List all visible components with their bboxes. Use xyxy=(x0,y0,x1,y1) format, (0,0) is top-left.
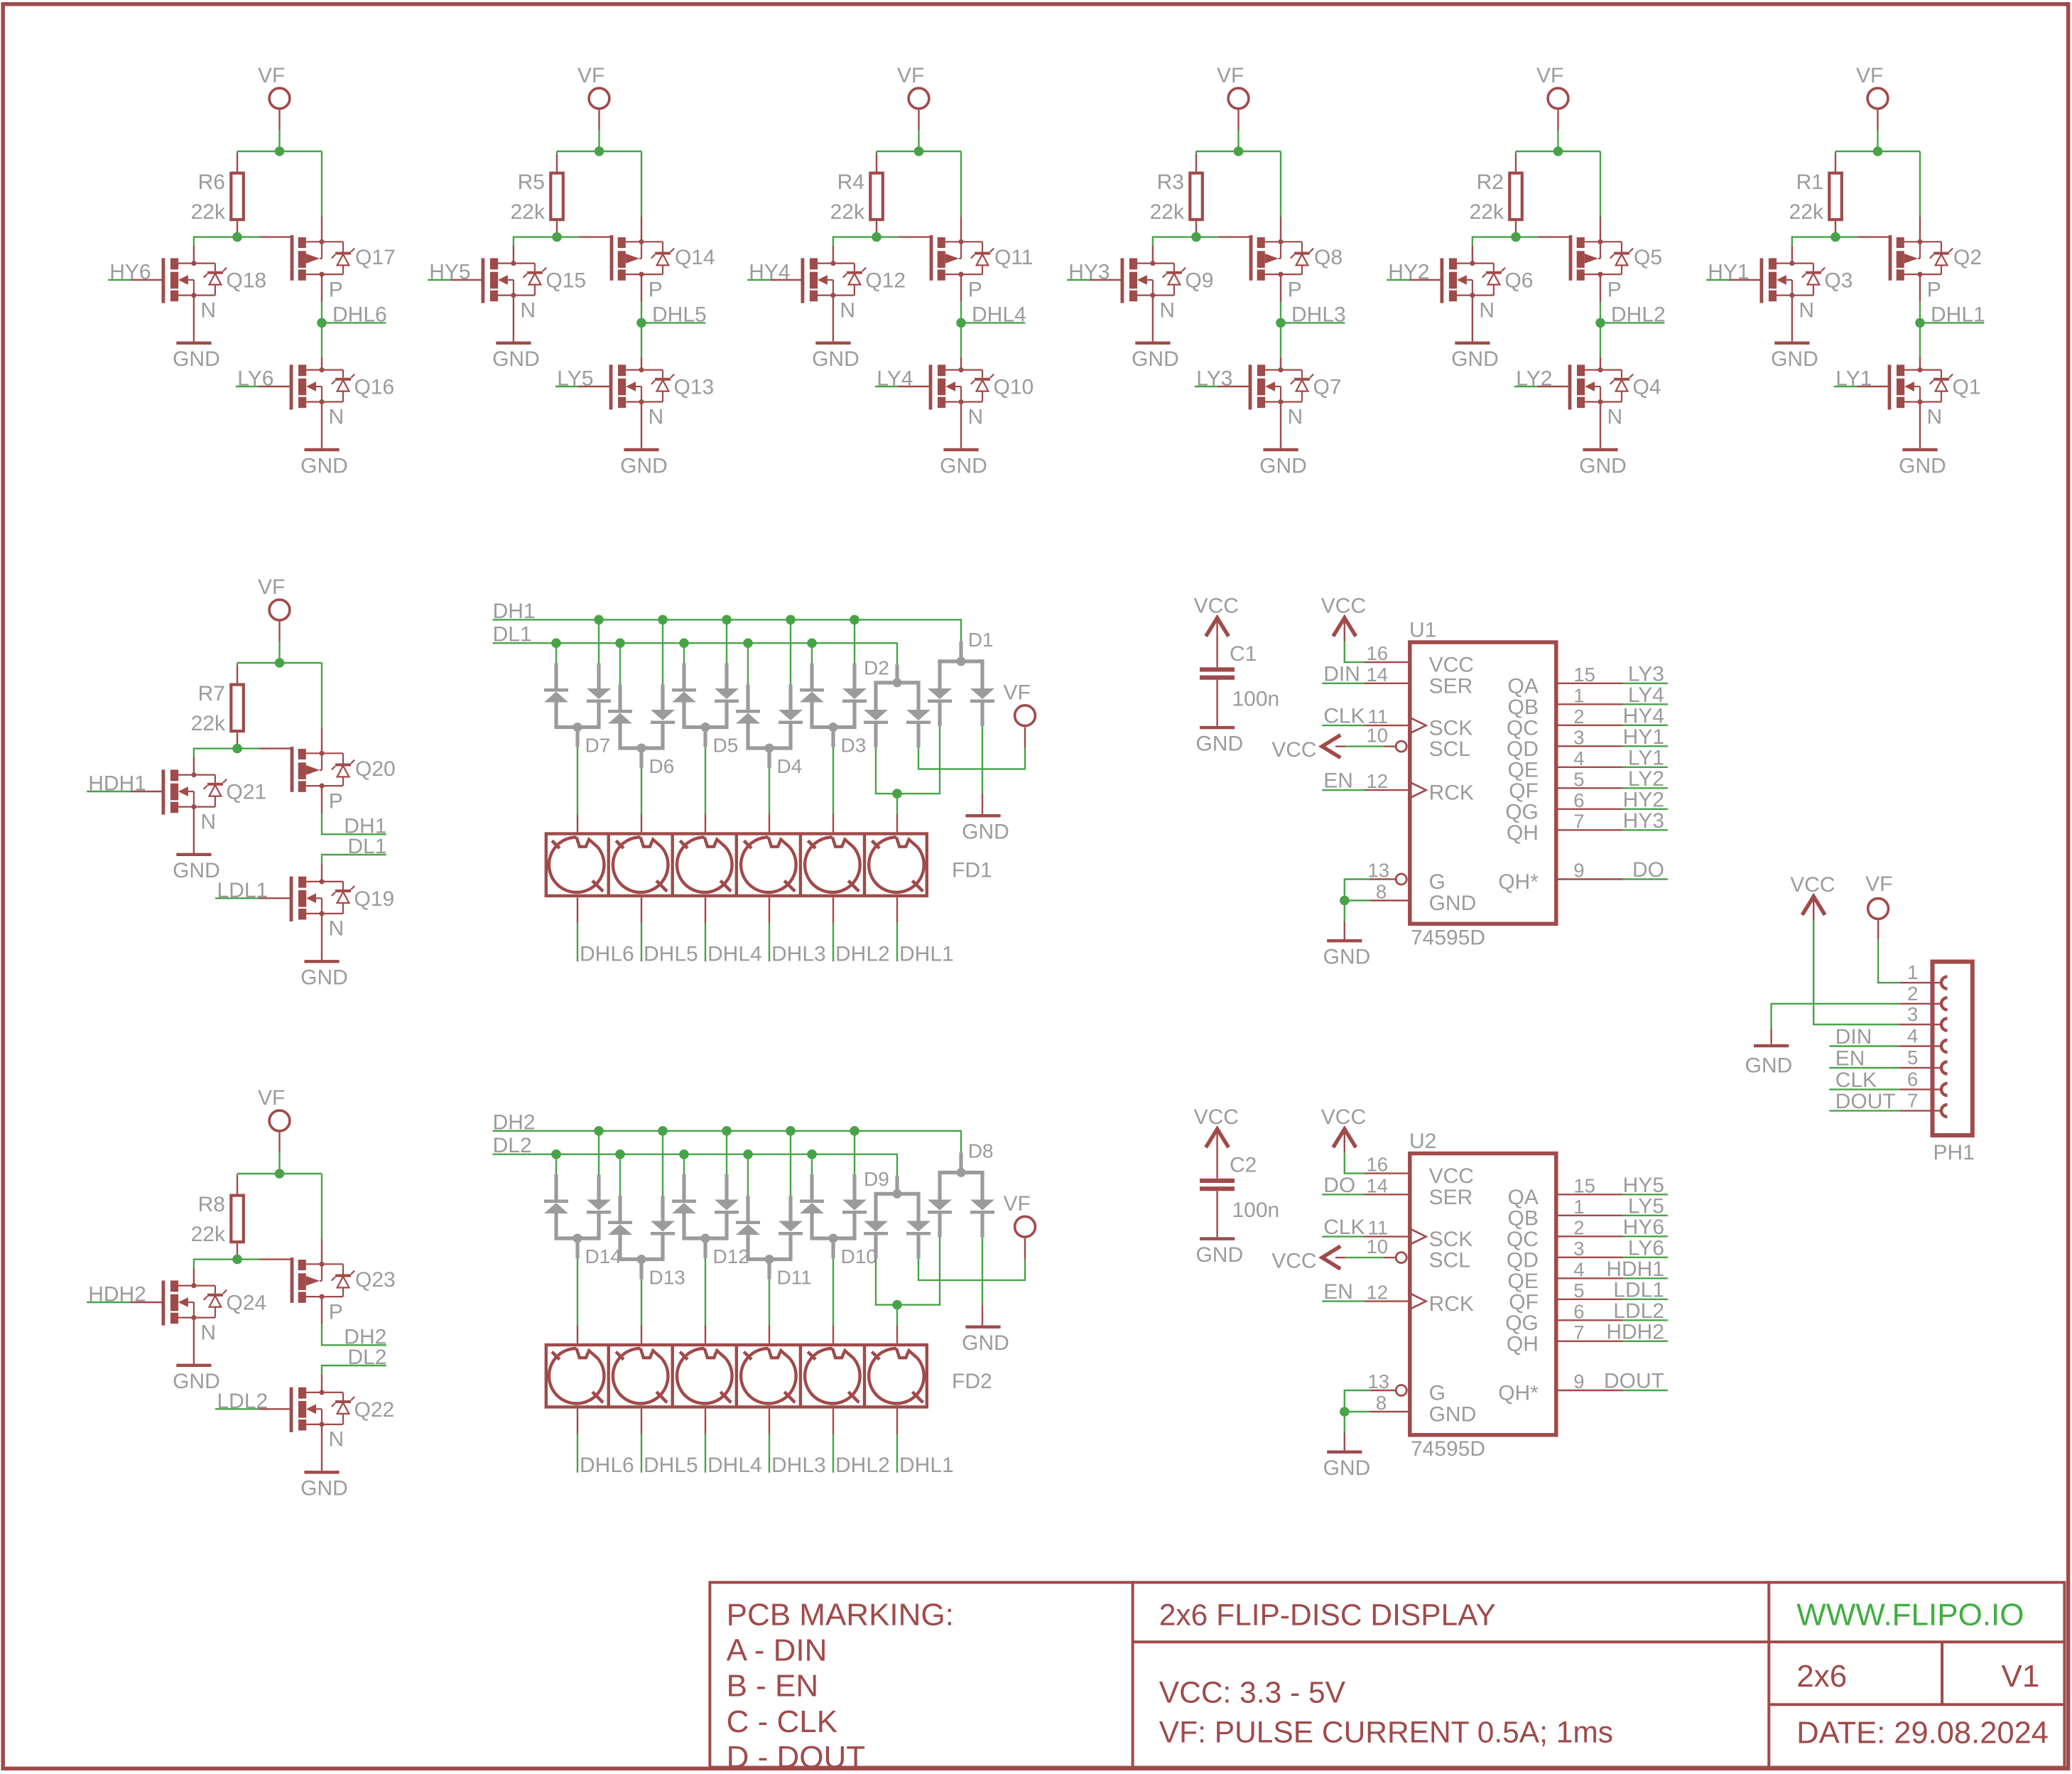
svg-text:QF: QF xyxy=(1509,1290,1539,1314)
wire PMOS drain to node DHL1 xyxy=(1919,274,1921,302)
transistor Q6 (N-MOSFET) xyxy=(1441,258,1506,303)
wire pair 5 to disc xyxy=(832,747,834,815)
wire to resistor xyxy=(237,663,238,666)
ground xyxy=(304,448,339,451)
svg-text:13: 13 xyxy=(1367,860,1389,882)
wire pin 7 lead xyxy=(1899,1110,1931,1111)
svg-text:10: 10 xyxy=(1367,1235,1389,1258)
svg-text:22k: 22k xyxy=(1470,200,1504,224)
wire gate node to PMOS gate xyxy=(1196,236,1218,237)
pin 7 contact xyxy=(1941,1105,1948,1117)
wire D1 right cathode to ground xyxy=(982,726,983,794)
transistor Q11 (P-MOSFET) xyxy=(930,235,994,281)
supply flag VF xyxy=(1867,88,1888,109)
svg-text:HY2: HY2 xyxy=(1623,788,1664,811)
wire pair 3 to disc xyxy=(705,1258,706,1326)
node VF junction xyxy=(1234,146,1244,156)
IC U2 74595D xyxy=(1410,1154,1556,1435)
capacitor C1 100n xyxy=(1200,667,1235,726)
wire resistor to gate node xyxy=(1835,221,1836,237)
svg-text:D14: D14 xyxy=(585,1245,622,1267)
wire VF rail xyxy=(1516,151,1600,152)
wire gate node to PMOS gate xyxy=(237,1258,259,1260)
svg-text:N: N xyxy=(200,810,216,833)
svg-text:2: 2 xyxy=(1573,705,1584,728)
node DHL1 xyxy=(1915,318,1925,328)
svg-text:N: N xyxy=(329,405,345,428)
wire to resistor xyxy=(1835,151,1836,154)
svg-text:QG: QG xyxy=(1505,1311,1539,1335)
svg-text:EN: EN xyxy=(1835,1047,1865,1071)
wire DHL5 label stub xyxy=(641,322,705,323)
wire disc pin DHL1 xyxy=(896,897,898,923)
wire C1 to ground xyxy=(1216,680,1217,726)
wire VF stub xyxy=(1237,110,1239,130)
svg-text:4: 4 xyxy=(1573,747,1584,769)
node DL2 junction 5 xyxy=(807,1150,817,1159)
wire pin 8 to ground xyxy=(1345,1411,1370,1412)
svg-text:HDH2: HDH2 xyxy=(1606,1320,1664,1343)
svg-text:D4: D4 xyxy=(777,755,803,777)
ground xyxy=(304,1471,339,1473)
wire HY5 xyxy=(428,279,450,281)
svg-text:7: 7 xyxy=(1573,1321,1584,1343)
svg-text:DHL4: DHL4 xyxy=(707,1454,762,1477)
svg-text:Q14: Q14 xyxy=(675,246,715,269)
svg-text:N: N xyxy=(329,1428,345,1451)
svg-text:6: 6 xyxy=(1573,1300,1584,1322)
node DHL3 xyxy=(1276,318,1286,328)
wire VF pulse line xyxy=(1024,727,1026,748)
svg-text:VCC: VCC xyxy=(1194,595,1239,618)
svg-text:DO: DO xyxy=(1632,858,1664,882)
diode D13 (dual) xyxy=(608,1196,675,1280)
svg-text:VF: VF xyxy=(1536,64,1563,87)
wire junction to ground symbol xyxy=(1344,1412,1345,1433)
svg-text:VF: VF xyxy=(577,64,604,87)
svg-text:D8: D8 xyxy=(968,1140,994,1162)
svg-text:D3: D3 xyxy=(841,735,867,757)
wire VF pulse line xyxy=(1024,1238,1026,1260)
wire disc pin DHL5 xyxy=(641,1409,642,1434)
svg-text:VCC: VCC xyxy=(1271,1250,1316,1273)
svg-text:GND: GND xyxy=(1579,454,1627,477)
transistor Q10 (N-MOSFET) xyxy=(929,364,994,409)
svg-text:CLK: CLK xyxy=(1835,1069,1877,1092)
svg-text:5: 5 xyxy=(1573,1280,1584,1302)
svg-text:10: 10 xyxy=(1367,725,1389,747)
wire Q3 source to ground xyxy=(1791,296,1793,342)
svg-text:N: N xyxy=(1159,298,1175,322)
wire gate node left xyxy=(194,749,237,757)
svg-text:DO: DO xyxy=(1323,1174,1355,1197)
wire DL1 to diode xyxy=(747,643,749,684)
wire resistor to gate node xyxy=(876,221,877,237)
wire Q22 source to ground xyxy=(321,1424,322,1471)
wire VF rail xyxy=(877,151,961,152)
diode D10 (dual) xyxy=(800,1174,867,1258)
transistor Q15 (N-MOSFET) xyxy=(482,258,547,303)
resistor R6 22k xyxy=(231,173,244,220)
transistor Q1 (N-MOSFET) xyxy=(1888,364,1953,409)
wire VF to PMOS source xyxy=(960,151,962,217)
svg-text:LY1: LY1 xyxy=(1628,746,1664,769)
svg-text:D - DOUT: D - DOUT xyxy=(727,1740,866,1774)
svg-text:C2: C2 xyxy=(1230,1154,1257,1177)
wire VF to pin 1 xyxy=(1877,920,1879,940)
diode D2 (dual, common anode) xyxy=(864,664,931,747)
wire DL1 to diode xyxy=(555,643,557,663)
transistor Q5 (P-MOSFET) xyxy=(1569,235,1634,281)
svg-text:LY6: LY6 xyxy=(1628,1236,1664,1260)
wire VF stub xyxy=(598,110,600,130)
svg-text:LY2: LY2 xyxy=(1628,767,1664,791)
wire disc pin DHL3 xyxy=(769,1409,770,1434)
svg-text:DIN: DIN xyxy=(1835,1025,1872,1049)
node DH1 junction 2 xyxy=(658,615,668,625)
wire PMOS drain to node DHL6 xyxy=(321,274,322,302)
wire DHL3 label stub xyxy=(1281,322,1345,323)
svg-text:7: 7 xyxy=(1907,1089,1918,1111)
svg-text:QC: QC xyxy=(1507,716,1539,740)
svg-text:Q9: Q9 xyxy=(1185,269,1213,293)
svg-text:15: 15 xyxy=(1573,664,1595,686)
svg-text:DHL1: DHL1 xyxy=(899,1454,954,1477)
node VF junction xyxy=(1873,146,1883,156)
svg-text:DHL2: DHL2 xyxy=(835,943,890,966)
transistor Q8 (P-MOSFET) xyxy=(1249,235,1314,281)
svg-text:CLK: CLK xyxy=(1323,1216,1365,1239)
svg-text:3: 3 xyxy=(1573,726,1584,748)
svg-text:VCC: VCC xyxy=(1429,1164,1474,1188)
wire VF stub xyxy=(278,622,280,642)
wire output QE to HDH1 xyxy=(1558,1277,1623,1279)
svg-text:B - EN: B - EN xyxy=(727,1669,819,1704)
wire CLK to pin 11 xyxy=(1322,725,1364,726)
node DL1 junction 3 xyxy=(679,638,689,648)
wire DL1 to diode xyxy=(811,643,813,663)
pin 4 contact xyxy=(1941,1040,1948,1052)
wire DH1 rail xyxy=(493,620,961,641)
title block table xyxy=(710,1581,2066,1768)
svg-text:16: 16 xyxy=(1367,642,1389,664)
transistor Q4 (N-MOSFET) xyxy=(1568,364,1634,409)
wire gate node to PMOS gate xyxy=(237,747,259,749)
ground xyxy=(965,814,1000,817)
wire VCC to C2 xyxy=(1216,1131,1217,1179)
wire LY2 xyxy=(1514,386,1537,387)
node VF junction xyxy=(275,658,285,668)
wire PMOS drain to node DHL3 xyxy=(1280,274,1281,302)
wire DL2 to diode xyxy=(811,1154,813,1174)
wire gate node left xyxy=(833,237,877,246)
wire output QE to LY1 xyxy=(1558,767,1623,768)
svg-text:SCL: SCL xyxy=(1429,737,1470,761)
svg-text:DHL2: DHL2 xyxy=(835,1454,890,1477)
resistor R4 22k xyxy=(870,173,883,220)
svg-text:HY5: HY5 xyxy=(1623,1174,1664,1197)
wire to resistor xyxy=(237,1174,238,1177)
wire VF stub xyxy=(278,110,280,130)
pin 6 contact xyxy=(1941,1083,1948,1096)
svg-text:FD1: FD1 xyxy=(952,859,992,882)
svg-text:LY4: LY4 xyxy=(1628,683,1664,707)
wire output QD to HY1 xyxy=(1558,745,1623,747)
node VF junction xyxy=(1553,146,1563,156)
wire DL2 rail xyxy=(493,1154,897,1176)
svg-text:PCB MARKING:: PCB MARKING: xyxy=(727,1598,954,1633)
svg-text:N: N xyxy=(1479,298,1495,322)
wire output QB to LY4 xyxy=(1558,703,1623,705)
wire node to Q10 drain xyxy=(960,323,962,357)
svg-text:QA: QA xyxy=(1508,1186,1539,1209)
diode D6 (dual) xyxy=(608,685,675,769)
transistor Q14 (P-MOSFET) xyxy=(610,235,675,281)
wire D1 cathode to disc node xyxy=(897,726,940,794)
wire output QH* to DO xyxy=(1558,878,1623,880)
wire output QD to LY6 xyxy=(1558,1257,1623,1258)
svg-text:Q12: Q12 xyxy=(865,269,906,293)
svg-text:P: P xyxy=(329,1301,343,1324)
ground xyxy=(1200,726,1235,729)
svg-text:2x6 FLIP-DISC DISPLAY: 2x6 FLIP-DISC DISPLAY xyxy=(1159,1599,1496,1633)
wire disc pin DHL2 xyxy=(832,1409,834,1434)
wire Q24 source to ground xyxy=(193,1318,195,1364)
wire DL2 to diode xyxy=(683,1154,685,1174)
wire VCC to pin 10 xyxy=(1335,1257,1346,1258)
svg-text:1: 1 xyxy=(1573,1196,1584,1218)
svg-text:N: N xyxy=(329,917,345,941)
wire pin 6 lead xyxy=(1899,1088,1931,1090)
diode D8 (dual, common anode) xyxy=(928,1152,994,1238)
pin 5 contact xyxy=(1941,1062,1948,1074)
svg-text:VCC: VCC xyxy=(1790,873,1835,897)
wire HY6 xyxy=(108,279,131,281)
svg-text:100n: 100n xyxy=(1232,688,1280,711)
wire D9 cathode to disc node xyxy=(876,1259,897,1305)
svg-text:Q17: Q17 xyxy=(355,246,396,269)
svg-text:VF: VF xyxy=(258,1086,285,1110)
wire output QB to LY5 xyxy=(1558,1215,1623,1216)
svg-text:D12: D12 xyxy=(713,1245,749,1267)
wire pair 1 to disc xyxy=(577,1258,578,1326)
svg-text:14: 14 xyxy=(1367,664,1389,686)
svg-text:VCC: VCC xyxy=(1321,595,1366,618)
svg-text:GND: GND xyxy=(1195,1243,1243,1267)
transistor Q21 (N-MOSFET) xyxy=(162,769,227,814)
node gate junction xyxy=(1191,232,1201,242)
svg-text:Q8: Q8 xyxy=(1314,246,1343,269)
svg-text:3: 3 xyxy=(1907,1003,1918,1025)
wire pair 2 to disc xyxy=(641,1280,642,1326)
svg-text:Q5: Q5 xyxy=(1634,246,1662,269)
wire VF rail xyxy=(237,151,322,152)
node DH1 junction 5 xyxy=(850,615,859,625)
svg-text:GND: GND xyxy=(812,347,859,371)
svg-text:N: N xyxy=(840,298,855,322)
transistor Q3 (N-MOSFET) xyxy=(1760,258,1826,303)
svg-text:R4: R4 xyxy=(837,171,864,194)
wire gate node left xyxy=(194,237,237,246)
wire gate node left xyxy=(1472,237,1516,246)
wire pin 13 to ground xyxy=(1369,878,1395,880)
node DL2 junction 1 xyxy=(551,1150,561,1159)
diode D4 (dual) xyxy=(736,685,803,769)
wire LY1 xyxy=(1834,386,1857,387)
svg-text:N: N xyxy=(520,298,536,322)
svg-text:N: N xyxy=(200,298,216,322)
svg-text:U2: U2 xyxy=(1409,1130,1436,1153)
svg-text:LY5: LY5 xyxy=(1628,1194,1664,1218)
resistor R8 22k xyxy=(231,1196,244,1243)
svg-text:Q7: Q7 xyxy=(1313,376,1342,399)
wire gate node left xyxy=(1792,237,1835,246)
wire HDH2 xyxy=(87,1302,131,1303)
svg-text:R1: R1 xyxy=(1796,171,1823,194)
ground xyxy=(176,1364,211,1367)
svg-text:Q13: Q13 xyxy=(674,376,715,399)
wire gate node left xyxy=(1153,237,1196,246)
wire DH1 to diode xyxy=(790,620,791,684)
svg-text:LY3: LY3 xyxy=(1628,662,1664,686)
svg-text:D9: D9 xyxy=(864,1168,889,1190)
wire output QH* to DOUT xyxy=(1558,1390,1623,1391)
svg-text:GND: GND xyxy=(300,966,348,990)
svg-text:22k: 22k xyxy=(511,200,546,224)
ground xyxy=(1583,448,1617,451)
svg-text:D11: D11 xyxy=(777,1267,812,1289)
svg-text:R2: R2 xyxy=(1477,171,1504,194)
svg-text:DOUT: DOUT xyxy=(1835,1090,1896,1113)
wire DH2 to diode xyxy=(854,1131,855,1174)
wire DIN xyxy=(1829,1045,1899,1046)
wire disc pin DHL4 xyxy=(705,1409,706,1434)
wire HY4 xyxy=(747,279,770,281)
svg-text:GND: GND xyxy=(940,454,987,477)
svg-text:GND: GND xyxy=(1195,732,1243,755)
svg-text:8: 8 xyxy=(1376,1392,1387,1414)
svg-text:QC: QC xyxy=(1507,1228,1539,1251)
wire DH1 to diode xyxy=(598,620,600,663)
wire pin 3 lead xyxy=(1899,1024,1931,1025)
wire pair 4 to disc xyxy=(769,1280,770,1326)
svg-text:GND: GND xyxy=(1429,892,1477,915)
wire resistor to gate node xyxy=(1515,221,1517,237)
svg-text:DHL1: DHL1 xyxy=(899,943,954,966)
svg-text:N: N xyxy=(1288,405,1303,428)
wire pin 13 to ground xyxy=(1369,1390,1395,1391)
svg-text:U1: U1 xyxy=(1409,618,1436,642)
pin 1 contact xyxy=(1941,977,1948,989)
clock wedge SCK xyxy=(1408,717,1426,735)
node DL1 junction 2 xyxy=(615,638,625,648)
supply flag VF xyxy=(589,88,609,109)
svg-text:P: P xyxy=(329,278,343,302)
wire PMOS drain to node DHL5 xyxy=(641,274,642,302)
node DH2 junction 2 xyxy=(658,1126,668,1136)
wire DL2 to diode xyxy=(747,1154,749,1196)
wire VF to PMOS source xyxy=(321,1174,322,1239)
svg-text:HY4: HY4 xyxy=(1623,704,1664,728)
svg-text:VF: VF xyxy=(1865,872,1892,896)
svg-text:QA: QA xyxy=(1508,674,1539,698)
wire to resistor xyxy=(1195,151,1197,154)
wire PMOS drain to DH1 xyxy=(321,786,322,813)
svg-text:VF: VF xyxy=(1004,681,1031,705)
capacitor C2 100n xyxy=(1200,1179,1235,1238)
wire to resistor xyxy=(237,151,238,154)
svg-text:DHL6: DHL6 xyxy=(580,1454,634,1477)
node DL1 junction 1 xyxy=(551,638,561,648)
svg-text:C - CLK: C - CLK xyxy=(727,1704,837,1739)
clock wedge SCK xyxy=(1408,1228,1426,1245)
wire resistor to gate node xyxy=(237,221,238,237)
wire VF to PMOS source xyxy=(1919,151,1921,217)
svg-text:22k: 22k xyxy=(830,200,865,224)
svg-text:P: P xyxy=(1288,278,1302,302)
svg-text:N: N xyxy=(1799,298,1814,322)
svg-text:100n: 100n xyxy=(1232,1199,1280,1222)
wire pin 4 lead xyxy=(1899,1045,1931,1046)
transistor Q7 (N-MOSFET) xyxy=(1249,364,1314,409)
svg-text:RCK: RCK xyxy=(1429,1292,1474,1316)
svg-text:SCL: SCL xyxy=(1429,1249,1470,1272)
transistor Q9 (N-MOSFET) xyxy=(1121,258,1186,303)
resistor R1 22k xyxy=(1829,173,1842,220)
svg-text:D2: D2 xyxy=(864,656,889,678)
svg-text:1: 1 xyxy=(1907,961,1918,983)
svg-text:22k: 22k xyxy=(191,712,226,735)
svg-text:4: 4 xyxy=(1907,1025,1918,1047)
wire LY5 xyxy=(555,386,578,387)
node gate junction xyxy=(232,744,242,754)
wire pair 1 to disc xyxy=(577,747,578,815)
svg-text:2: 2 xyxy=(1573,1216,1584,1238)
svg-text:VF: VF xyxy=(1217,64,1244,87)
wire D8 cathode to disc node xyxy=(897,1238,940,1305)
wire CLK xyxy=(1829,1088,1899,1090)
wire EN xyxy=(1829,1067,1899,1069)
node DH1 junction 1 xyxy=(594,615,604,625)
svg-text:4: 4 xyxy=(1573,1258,1584,1280)
wire disc pin DHL6 xyxy=(577,897,578,923)
ground xyxy=(1327,1451,1362,1454)
svg-text:22k: 22k xyxy=(191,200,226,224)
svg-text:HY6: HY6 xyxy=(1623,1216,1664,1239)
svg-text:VCC: 3.3 - 5V: VCC: 3.3 - 5V xyxy=(1159,1677,1346,1710)
wire VF to PMOS source xyxy=(321,151,322,217)
resistor R7 22k xyxy=(231,685,244,732)
supply flag VF xyxy=(1868,899,1889,919)
wire output QC to HY6 xyxy=(1558,1235,1623,1237)
wire Q1 source to ground xyxy=(1919,402,1921,448)
svg-text:6: 6 xyxy=(1907,1068,1918,1090)
wire D8 right cathode to ground xyxy=(982,1238,983,1305)
svg-text:74595D: 74595D xyxy=(1411,1437,1485,1461)
svg-text:V1: V1 xyxy=(2002,1659,2040,1694)
ground xyxy=(176,853,211,856)
flip-disc module FD1 xyxy=(546,834,927,896)
transistor Q18 (N-MOSFET) xyxy=(162,258,227,303)
svg-text:12: 12 xyxy=(1367,770,1389,792)
wire PMOS drain to node DHL4 xyxy=(960,274,962,302)
svg-text:DHL3: DHL3 xyxy=(771,943,826,966)
wire to resistor xyxy=(1515,151,1517,154)
wire node to Q13 drain xyxy=(641,323,642,357)
svg-text:14: 14 xyxy=(1367,1174,1389,1196)
supply flag VCC xyxy=(1333,1129,1356,1147)
svg-text:Q1: Q1 xyxy=(1953,376,1981,399)
